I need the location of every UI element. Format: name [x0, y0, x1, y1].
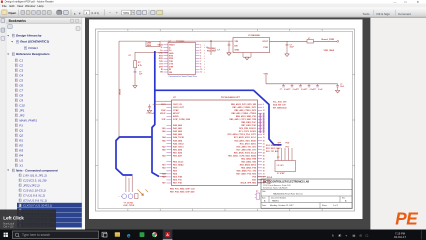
highlight tool icon: [157, 10, 163, 15]
wire from blue hook to mcu pins: [160, 176, 167, 178]
usb connector box small: [146, 41, 160, 46]
output cap 10uF: [286, 41, 288, 44]
svg-text:▢: ▢: [366, 233, 369, 237]
bookmarks panel header: [6, 18, 82, 24]
page number box: [84, 10, 90, 15]
bookmarks options row: [8, 25, 13, 29]
cap row rail wire: [265, 75, 267, 84]
svg-text:Left Click: Left Click: [3, 216, 24, 221]
crystal Y1 and caps: [122, 194, 127, 199]
panel scrollbar: [82, 18, 85, 230]
svg-text:Type here to search: Type here to search: [22, 233, 50, 237]
MCU bottom right wires to icsp: [258, 176, 267, 178]
ICSP header box: [275, 161, 296, 172]
svg-text:PE: PE: [395, 209, 418, 229]
svg-text:7:19 PM: 7:19 PM: [395, 232, 406, 236]
title bar: [0, 0, 426, 4]
svg-text:∧: ∧: [332, 234, 334, 238]
connector part left of title block: [256, 193, 259, 199]
printer icon: [57, 11, 62, 15]
left click overlay box: [0, 210, 56, 231]
pdf page: [89, 19, 363, 219]
wire usb to serial header: [160, 40, 233, 42]
chassis ground arrow: [138, 190, 144, 196]
windows taskbar: [0, 230, 426, 240]
blue net branch to crystal: [116, 137, 152, 175]
taskview icon: [102, 232, 107, 237]
chrome icon: [152, 232, 157, 237]
decoupling capacitors: [283, 84, 285, 86]
show desktop: [421, 231, 423, 240]
serial header U2 box: [168, 43, 196, 75]
search box: [13, 231, 99, 239]
regulator U box: [233, 38, 270, 53]
ground cap row: [335, 90, 339, 93]
email icon: [64, 10, 69, 14]
left nav icon strip: [0, 18, 6, 230]
document area dark background: [85, 18, 371, 230]
zoom percent box: [122, 10, 131, 15]
schematic sheet frame outer: [96, 29, 355, 211]
wires MCU left to blue net: [156, 100, 172, 102]
right task pane: [371, 18, 426, 230]
wire VBUS vertical: [118, 41, 120, 137]
menu bar: [0, 4, 426, 8]
wire VBUS horizontal: [119, 40, 146, 42]
start button: [4, 233, 8, 237]
MCU pin rows: [160, 103, 265, 185]
selected net rows: [17, 203, 82, 208]
svg-text:A: A: [166, 233, 169, 237]
nets section: [7, 168, 81, 227]
adobe reader icon active: [163, 230, 173, 240]
input cap: [228, 41, 230, 44]
svg-text:e: e: [127, 233, 131, 240]
crystal circuit wires: [125, 175, 127, 192]
file explorer icon: [115, 232, 120, 236]
toolbar icon group: [21, 10, 25, 14]
ground below resistor branch: [133, 86, 137, 89]
ferrite bead L: [307, 40, 314, 43]
MCU dense pin bars right: [260, 113, 262, 133]
svg-text:▤: ▤: [353, 233, 356, 237]
title block table: [261, 179, 352, 208]
svg-text:◐: ◐: [346, 233, 348, 237]
wire to board pwr: [314, 40, 338, 42]
MCU U1 box: [172, 100, 258, 186]
bookmarks panel: [6, 18, 82, 230]
open button: [2, 10, 7, 15]
svg-text:Ctrl + (2): Ctrl + (2): [3, 225, 13, 229]
regulator bottom ground: [242, 53, 244, 58]
capacitor C on branch: [134, 71, 137, 72]
schematic sheet frame inner: [98, 31, 353, 208]
regulator output wire: [270, 40, 308, 42]
svg-text:04-Oct-17: 04-Oct-17: [394, 235, 406, 239]
svg-text:◩: ◩: [339, 233, 342, 237]
wire serial to regulator: [210, 41, 212, 55]
fit view icons: [137, 10, 141, 14]
green app icon: [140, 232, 145, 237]
bookmarks tree: [7, 33, 50, 56]
blue net vertical main: [152, 51, 159, 177]
bulk cap at rail end: [337, 84, 339, 86]
blue net horizontal to right side: [155, 90, 282, 145]
decoupling cap near MCU left: [149, 104, 151, 106]
svg-text:◴: ◴: [360, 233, 363, 237]
resistor R pullup branch: [135, 51, 168, 53]
frame zone ticks: [96, 29, 356, 211]
